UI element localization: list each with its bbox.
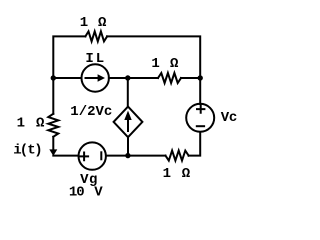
node B junction dot (bottom) — [125, 153, 130, 158]
Vg minus sign (vertical bar) — [100, 152, 102, 159]
svg-text:Ω: Ω — [36, 116, 45, 132]
resistor R4 (1 ohm, left vertical) — [48, 114, 58, 137]
wire R1 to top-right corner down to node C — [107, 36, 200, 78]
node C junction dot — [198, 75, 203, 80]
svg-text:1/2Vc: 1/2Vc — [70, 104, 112, 120]
svg-text:1: 1 — [151, 56, 159, 72]
resistor R2 (1 ohm, middle) — [158, 73, 181, 83]
svg-text:L: L — [96, 51, 104, 67]
svg-text:0: 0 — [76, 184, 84, 200]
i(t) arrowhead — [49, 149, 57, 156]
wire dependent source to bottom node B — [127, 137, 129, 156]
wire node A to current source IL — [53, 77, 81, 79]
resistor R1 (1 ohm, top) — [85, 31, 107, 41]
svg-text:I: I — [85, 51, 93, 67]
wire dependent source branch top — [127, 78, 129, 107]
voltage source Vc circle — [186, 104, 214, 132]
wire top-left corner to resistor R1 — [53, 36, 85, 78]
node junction dot right of IL — [125, 75, 130, 80]
wire IL to resistor R2 — [109, 77, 158, 79]
wire R3 to source Vg — [106, 155, 165, 157]
Vg plus sign — [80, 153, 88, 161]
Vc minus sign — [197, 125, 204, 127]
dependent source U1 arrow (up) — [127, 120, 129, 132]
svg-text:): ) — [34, 143, 42, 159]
Vc plus sign — [197, 105, 204, 113]
svg-text:1: 1 — [80, 15, 88, 31]
svg-text:1: 1 — [163, 166, 171, 182]
wire R4 down with i(t) arrow — [52, 137, 54, 150]
svg-text:Ω: Ω — [182, 166, 191, 182]
wire node A down to resistor R4 — [52, 78, 54, 114]
dependent current source U1 diamond (1/2Vc) — [114, 107, 143, 138]
node A junction dot — [51, 75, 56, 80]
current source IL circle — [82, 64, 109, 91]
svg-text:Ω: Ω — [98, 15, 107, 31]
svg-text:1: 1 — [17, 116, 25, 132]
svg-text:c: c — [229, 110, 237, 126]
resistor R3 (1 ohm, bottom) — [166, 151, 189, 161]
current source IL arrow — [86, 77, 99, 79]
wire node C down to source Vc — [199, 78, 201, 104]
wire Vg to bottom-left corner — [53, 155, 78, 157]
voltage source Vg circle — [79, 142, 106, 169]
wire R2 to node C — [181, 77, 200, 79]
svg-text:Ω: Ω — [170, 56, 179, 72]
svg-text:V: V — [94, 184, 103, 200]
wire Vc to bottom-right corner — [189, 132, 201, 156]
